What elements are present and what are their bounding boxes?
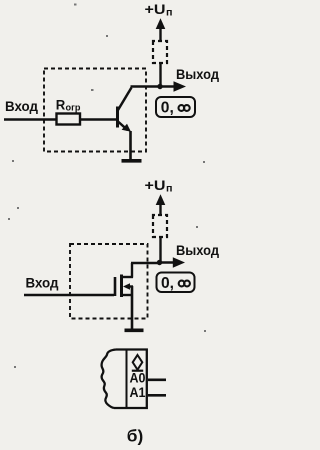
power arrow up (circuit 1) — [156, 18, 166, 41]
dashed box (circuit 2) — [70, 244, 148, 319]
svg-text:огр: огр — [66, 102, 82, 112]
IC body torn fragment — [102, 350, 147, 409]
wire collector to node (circuit 1) — [131, 85, 161, 88]
ground (circuit 1) — [122, 159, 142, 163]
svg-text:п: п — [166, 8, 173, 19]
value label 0,inf (circuit 1) — [156, 97, 195, 117]
power label +Un (circuit 2) — [145, 177, 173, 195]
input wire (circuit 1) — [4, 118, 57, 121]
pin A0 wire — [148, 378, 166, 381]
svg-text:A1: A1 — [130, 384, 146, 400]
output arrow (circuit 1) — [161, 81, 187, 91]
output arrow (circuit 2) — [161, 257, 186, 267]
scan speckles — [8, 4, 206, 369]
pin A1 wire — [148, 394, 166, 397]
value label 0,inf (circuit 2) — [157, 273, 195, 293]
svg-text:Выход: Выход — [176, 242, 219, 258]
svg-text:R: R — [56, 97, 66, 112]
transistor Q2 (MOSFET) — [115, 263, 133, 297]
svg-text:п: п — [166, 184, 173, 195]
svg-text:0,: 0, — [161, 100, 174, 117]
svg-text:+U: +U — [145, 177, 166, 193]
wire resistor to base (circuit 1) — [80, 118, 117, 121]
node junction dot (circuit 1) — [157, 84, 162, 89]
svg-text:Вход: Вход — [5, 98, 38, 114]
load resistor dashed (circuit 1) — [153, 41, 167, 63]
emitter wire down (circuit 1) — [129, 131, 132, 160]
node junction dot (circuit 2) — [157, 260, 162, 265]
wire drain to node (circuit 2) — [131, 262, 161, 265]
svg-text:+U: +U — [145, 1, 166, 17]
wire load to node (circuit 2) — [159, 237, 161, 263]
svg-text:Выход: Выход — [176, 66, 219, 82]
power arrow up (circuit 2) — [156, 194, 166, 215]
ground (circuit 2) — [125, 328, 144, 332]
open-collector symbol diamond — [132, 355, 143, 371]
svg-text:0,: 0, — [161, 275, 174, 292]
IC divider line — [126, 350, 128, 409]
resistor Rogr — [56, 97, 81, 124]
dashed box (circuit 1) — [44, 69, 146, 152]
source wire down (circuit 2) — [131, 286, 134, 330]
input wire (circuit 2) — [24, 294, 114, 297]
transistor Q1 (NPN) — [118, 88, 132, 132]
wire load to node (circuit 1) — [159, 63, 161, 87]
svg-text:б): б) — [127, 427, 144, 446]
svg-text:Вход: Вход — [26, 275, 59, 291]
load resistor dashed (circuit 2) — [153, 215, 167, 237]
power label +Un (circuit 1) — [145, 1, 173, 19]
